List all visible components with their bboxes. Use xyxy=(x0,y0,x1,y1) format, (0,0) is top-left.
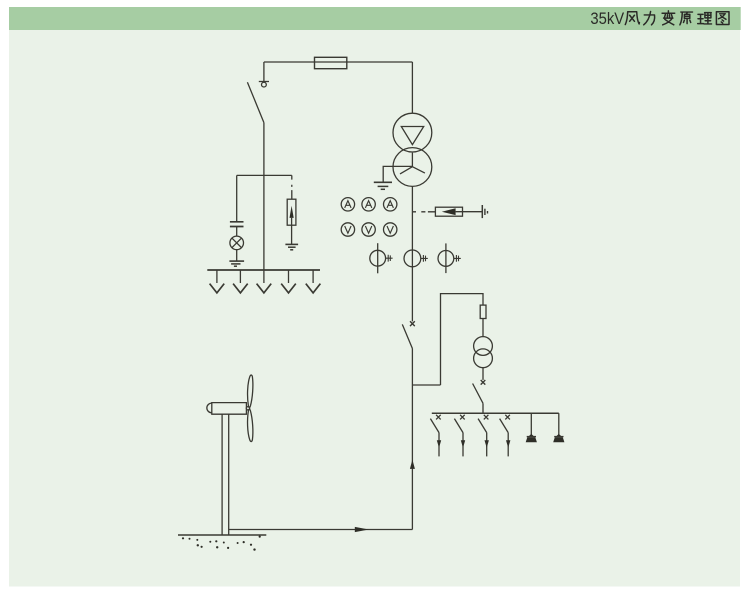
voltmeter PV3 xyxy=(384,223,397,236)
earth rotated xyxy=(481,205,483,218)
earth arrow 4 xyxy=(281,270,296,293)
earth arrow 3 xyxy=(257,270,272,293)
feeder 3 xyxy=(478,415,489,457)
current transformer TA3 xyxy=(438,243,461,273)
cable termination 1 xyxy=(526,413,537,442)
switch blade T2 xyxy=(473,384,483,404)
capacitor C1 plates xyxy=(230,222,244,227)
ammeter PA3 xyxy=(384,198,397,211)
wire main vertical xyxy=(411,186,413,321)
breaker X main xyxy=(410,321,415,326)
wind turbine blade upper xyxy=(248,375,253,407)
transformer T2 winding 2 xyxy=(474,349,493,368)
disconnect switch QS1 contact circle xyxy=(262,82,267,87)
wire surge arrester branch dash-dot xyxy=(412,211,435,213)
transformer T2 winding 1 xyxy=(474,337,493,356)
wire T2 to breaker xyxy=(482,368,484,380)
earth arrow 2 xyxy=(233,270,248,293)
ground arrester branch xyxy=(285,243,298,245)
ground line xyxy=(178,534,266,536)
switch blade main xyxy=(402,324,412,348)
title glyphs 风力变原理图 xyxy=(625,11,729,25)
transformer neutral wire xyxy=(383,166,412,182)
wire arrester to earth xyxy=(456,211,483,213)
feeder 2 xyxy=(454,415,465,457)
wire fuse to transformer xyxy=(482,319,484,337)
wire junction horizontal xyxy=(412,384,440,386)
ammeter PA2 xyxy=(362,198,375,211)
voltmeter PV1 xyxy=(341,223,354,236)
lamp HL1 xyxy=(230,236,244,250)
title text 35kV xyxy=(590,9,624,28)
wire right branch vertical xyxy=(441,294,484,385)
disconnect switch QS1 contact tick xyxy=(259,81,269,83)
voltmeter PV2 xyxy=(362,223,375,236)
transformer T1 LV winding xyxy=(393,148,432,187)
wire top horizontal xyxy=(264,61,413,63)
wire arrester to ground xyxy=(291,218,293,244)
arrester FV1 arrow xyxy=(290,206,294,218)
surge arrester FV2 body xyxy=(435,207,462,216)
glyph 风 xyxy=(625,12,639,25)
cable termination 2 xyxy=(553,413,564,442)
fuse F1 xyxy=(315,57,347,68)
earthing bus xyxy=(207,269,320,271)
wire switch drop xyxy=(263,62,265,81)
ground lamp branch xyxy=(229,260,244,262)
earth arrow 1 xyxy=(210,270,225,293)
wire left vertical xyxy=(263,123,265,270)
ground transformer neutral xyxy=(374,181,392,183)
flow arrow right xyxy=(355,527,369,532)
flow arrow up xyxy=(410,460,415,469)
earth arrow 5 xyxy=(306,270,321,293)
wire to feeder bus xyxy=(482,403,484,413)
breaker X T2 xyxy=(481,380,486,385)
glyph 原 xyxy=(680,12,693,25)
current transformer TA1 xyxy=(370,243,393,273)
wire lamp to ground xyxy=(236,250,238,261)
soil dots xyxy=(182,536,261,551)
wire capacitor drop xyxy=(236,175,238,221)
feeder 4 xyxy=(500,415,511,457)
svg-text:35kV: 35kV xyxy=(590,9,624,28)
wind turbine nose cap xyxy=(207,403,212,413)
arrester FV1 body xyxy=(287,199,296,225)
feeder 1 xyxy=(430,415,441,457)
wind turbine tower xyxy=(222,414,229,535)
feeder bus xyxy=(432,412,559,414)
wire transformer top xyxy=(411,62,413,113)
wind turbine blade lower xyxy=(248,409,253,441)
ammeter PA1 xyxy=(341,198,354,211)
wind turbine hub xyxy=(246,407,249,410)
fuse F2 xyxy=(480,305,486,318)
glyph 理 xyxy=(698,13,712,24)
wire branch horizontal xyxy=(237,174,292,176)
glyph 变 xyxy=(662,11,675,25)
wire turbine output xyxy=(229,529,413,531)
transformer T1 HV winding xyxy=(393,113,432,152)
transformer T1 wye symbol xyxy=(400,153,425,174)
wire main lower vertical xyxy=(411,349,413,530)
transformer T1 delta symbol xyxy=(401,127,423,145)
disconnect switch QS1 blade xyxy=(247,82,264,122)
wind turbine nacelle body xyxy=(212,403,247,415)
header bar xyxy=(9,7,741,30)
wire capacitor to lamp xyxy=(236,227,238,237)
glyph 图 xyxy=(716,12,729,25)
wire arrester dash-dot xyxy=(291,175,293,199)
glyph 力 xyxy=(644,11,655,24)
surge arrester FV2 arrow xyxy=(442,208,456,215)
current transformer TA2 xyxy=(404,250,428,267)
